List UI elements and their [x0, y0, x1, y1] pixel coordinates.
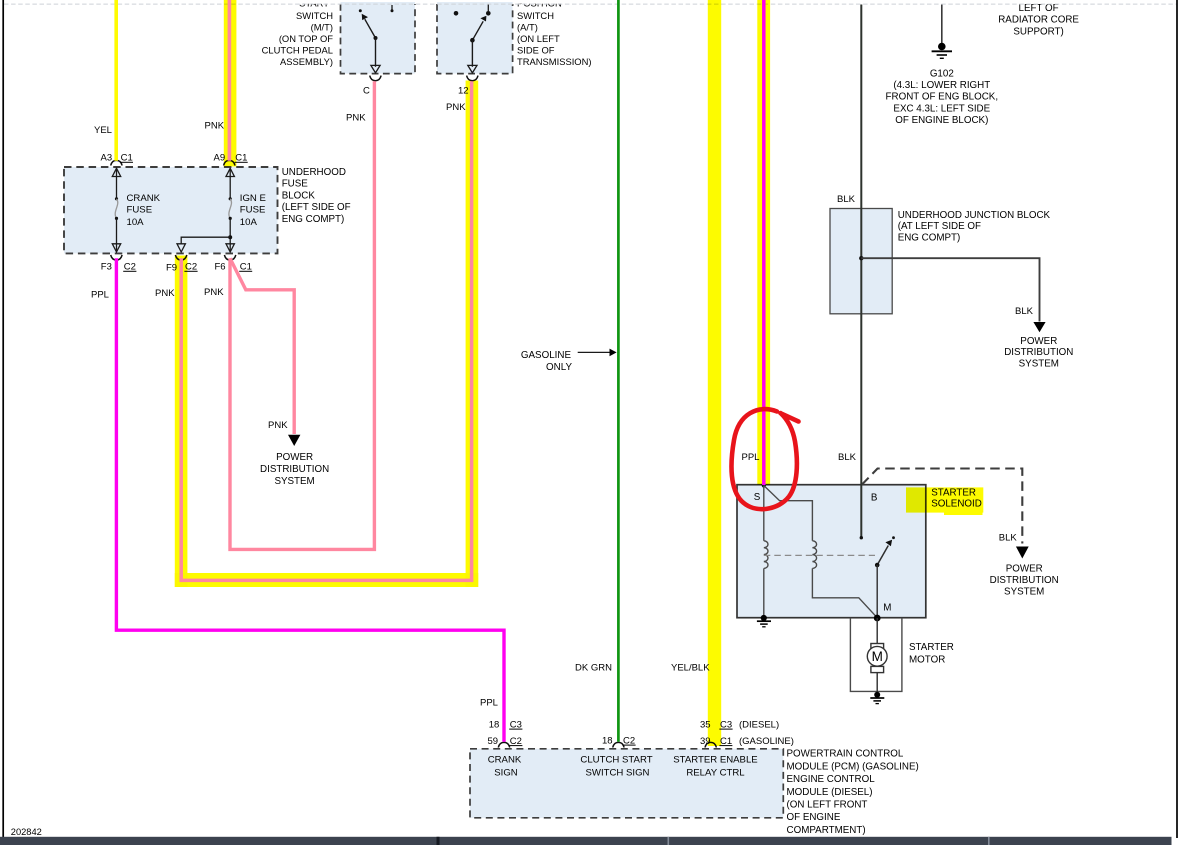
- pin F9 C2: [166, 262, 198, 274]
- frame: left border: [2, 0, 4, 837]
- label STARTER MOTOR: [909, 642, 954, 666]
- svg-text:F6: F6: [215, 262, 226, 273]
- ground solenoid: [757, 620, 771, 622]
- wire BLK junction block internal vertical: [860, 209, 862, 314]
- svg-text:M: M: [883, 603, 891, 614]
- pin A3 C1: [101, 153, 134, 164]
- svg-text:PPL: PPL: [480, 697, 498, 708]
- svg-text:OF ENGINE: OF ENGINE: [787, 812, 841, 823]
- starter assembly dashed enclosure: [862, 469, 1022, 544]
- label power distribution system (left): [260, 452, 329, 487]
- pin F3 C2: [101, 262, 137, 273]
- pin 59 C2: [488, 736, 523, 747]
- PCM box: [470, 749, 783, 818]
- solenoid switch arm: [877, 546, 888, 566]
- start switch M/T box: [341, 2, 416, 74]
- label STARTER SOLENOID: [931, 487, 982, 509]
- node junction block splice: [859, 256, 863, 260]
- svg-text:COMPARTMENT): COMPARTMENT): [787, 825, 866, 836]
- highlighter band over PNK wire at A9: [224, 0, 237, 167]
- svg-text:ENG COMPT): ENG COMPT): [898, 233, 961, 244]
- connector cup F6 C1: [224, 255, 235, 260]
- svg-text:ENG COMPT): ENG COMPT): [282, 214, 345, 225]
- svg-text:FUSE: FUSE: [282, 179, 309, 190]
- svg-text:EXC 4.3L: LEFT SIDE: EXC 4.3L: LEFT SIDE: [893, 103, 990, 114]
- wire pivot to M terminal: [876, 565, 878, 618]
- svg-text:(AT LEFT SIDE OF: (AT LEFT SIDE OF: [898, 221, 981, 232]
- wire M to motor: [876, 618, 878, 644]
- svg-text:18: 18: [489, 719, 500, 730]
- solenoid internals: [757, 483, 895, 626]
- PNK arrowhead to power distribution (left): [288, 435, 300, 446]
- svg-text:(4.3L: LOWER RIGHT: (4.3L: LOWER RIGHT: [893, 80, 990, 91]
- svg-text:PNK: PNK: [268, 420, 288, 431]
- wire BLK junction block to power distribution: [861, 258, 1039, 321]
- starter motor symbol: [867, 644, 887, 673]
- value CRANK FUSE 10A: [127, 193, 161, 228]
- svg-text:BLK: BLK: [837, 194, 856, 205]
- mechanical linkage dashed: [764, 554, 875, 556]
- label GASOLINE ONLY: [521, 350, 573, 373]
- svg-text:UNDERHOOD: UNDERHOOD: [282, 167, 346, 178]
- pin F6 C1: [215, 262, 253, 273]
- svg-text:POWER: POWER: [1020, 336, 1057, 347]
- connector hump PCM 59 C2: [498, 742, 509, 747]
- fuse block internal: F9 branch wire: [177, 235, 232, 252]
- svg-text:CRANK: CRANK: [488, 754, 522, 765]
- svg-text:TRANSMISSION): TRANSMISSION): [517, 56, 591, 67]
- connector cup under A/T switch: [467, 76, 478, 81]
- highlighter band up to switch terminal 12: [466, 81, 479, 588]
- wire YEL from ignition to A3: [114, 0, 118, 161]
- svg-text:RADIATOR CORE: RADIATOR CORE: [998, 15, 1079, 26]
- pin 39 C1 (GASOLINE): [700, 736, 794, 747]
- start switch M/T internals: [359, 5, 394, 73]
- svg-text:202842: 202842: [11, 827, 42, 837]
- pin 35 C3 (DIESEL): [700, 719, 779, 730]
- svg-text:OF ENGINE BLOCK): OF ENGINE BLOCK): [895, 115, 988, 126]
- svg-text:POWERTRAIN CONTROL: POWERTRAIN CONTROL: [787, 749, 904, 760]
- svg-text:C: C: [363, 86, 370, 97]
- svg-text:SYSTEM: SYSTEM: [274, 476, 314, 487]
- svg-text:PNK: PNK: [205, 120, 225, 131]
- taskbar: [0, 837, 1172, 845]
- svg-text:FRONT OF ENG BLOCK,: FRONT OF ENG BLOCK,: [886, 92, 999, 103]
- node switch pivot: [875, 563, 880, 568]
- wire hold-in coil to ground: [763, 568, 765, 617]
- svg-text:SIDE OF: SIDE OF: [517, 45, 555, 56]
- svg-text:CRANK: CRANK: [127, 193, 161, 204]
- wire S to pull-in winding: [764, 486, 813, 541]
- svg-text:FUSE: FUSE: [240, 205, 266, 216]
- connector cup under M/T switch: [370, 76, 381, 81]
- svg-text:(ON LEFT: (ON LEFT: [517, 33, 560, 44]
- label PCM input CRANK SIGN: [488, 754, 522, 778]
- position switch A/T internals: [454, 5, 491, 73]
- svg-text:SWITCH: SWITCH: [517, 10, 554, 21]
- svg-text:STARTER ENABLE: STARTER ENABLE: [673, 754, 757, 765]
- frame: top faint dashed line: [4, 3, 1177, 5]
- starter motor case: [850, 618, 902, 692]
- label PCM input CLUTCH START SWITCH SIGN: [580, 754, 652, 778]
- wire S to hold-in winding: [763, 486, 765, 541]
- connector hump A3 C1: [111, 160, 122, 165]
- wire motor to ground: [876, 673, 878, 693]
- svg-text:PNK: PNK: [446, 102, 466, 113]
- svg-text:DK GRN: DK GRN: [575, 662, 612, 673]
- wire PNK from F9 to position switch 12: [181, 81, 471, 580]
- svg-text:SIGN: SIGN: [494, 767, 518, 778]
- svg-text:RELAY CTRL: RELAY CTRL: [686, 767, 745, 778]
- svg-text:10A: 10A: [127, 217, 145, 228]
- svg-text:DISTRIBUTION: DISTRIBUTION: [990, 575, 1059, 586]
- label radiator core support: [998, 3, 1079, 37]
- BLK arrowhead to power distribution (top right): [1033, 322, 1045, 332]
- highlighter band over PPL wire at solenoid: [757, 0, 770, 485]
- svg-text:59: 59: [488, 736, 499, 747]
- svg-text:YEL: YEL: [94, 125, 112, 136]
- svg-text:ONLY: ONLY: [546, 362, 572, 373]
- value IGN E FUSE 10A: [240, 193, 266, 228]
- svg-text:PPL: PPL: [742, 452, 760, 463]
- label power distribution system (top right): [1004, 336, 1073, 370]
- wire DK GRN to PCM 18 C2: [617, 0, 620, 742]
- connector hump PCM 39 C1: [705, 742, 716, 747]
- svg-text:FUSE: FUSE: [127, 205, 153, 216]
- svg-text:PNK: PNK: [346, 113, 366, 124]
- svg-text:G102: G102: [930, 68, 954, 79]
- label PCM input STARTER ENABLE RELAY CTRL: [673, 754, 757, 778]
- svg-text:S: S: [754, 492, 761, 503]
- svg-text:SYSTEM: SYSTEM: [1004, 586, 1044, 597]
- label underhood fuse block: [282, 167, 351, 225]
- wire PPL to solenoid S: [762, 0, 766, 485]
- svg-text:MODULE (DIESEL): MODULE (DIESEL): [787, 787, 873, 798]
- label underhood junction block: [898, 210, 1051, 244]
- svg-text:PNK: PNK: [204, 287, 224, 298]
- starter solenoid box: [737, 485, 926, 618]
- svg-text:A3: A3: [101, 153, 113, 164]
- highlighter band horizontal run: [175, 573, 478, 587]
- node solenoid ground junction: [761, 615, 767, 621]
- svg-text:A9: A9: [214, 153, 226, 164]
- svg-text:M: M: [872, 649, 883, 664]
- underhood fuse block box: [64, 167, 278, 253]
- svg-text:(ON LEFT FRONT: (ON LEFT FRONT: [787, 800, 868, 811]
- highlighter over STARTER SOLENOID label: [906, 487, 983, 515]
- underhood junction block box: [830, 209, 892, 314]
- svg-text:PNK: PNK: [155, 288, 175, 299]
- label powertrain control module: [787, 749, 919, 836]
- svg-text:CLUTCH PEDAL: CLUTCH PEDAL: [262, 45, 333, 56]
- label position switch A/T (clipped POSITION sliver): [517, 0, 591, 67]
- pin A9 C1: [214, 153, 248, 164]
- svg-text:SYSTEM: SYSTEM: [1019, 358, 1059, 369]
- svg-text:B: B: [871, 493, 878, 504]
- svg-text:STARTER: STARTER: [909, 642, 954, 653]
- connector cup F3 C2: [111, 255, 122, 260]
- svg-text:ENGINE CONTROL: ENGINE CONTROL: [787, 774, 876, 785]
- svg-text:LEFT OF: LEFT OF: [1019, 3, 1059, 14]
- wire PNK from F6 to clutch start switch C: [230, 81, 374, 549]
- svg-text:POWER: POWER: [1006, 563, 1043, 574]
- svg-text:DISTRIBUTION: DISTRIBUTION: [260, 464, 329, 475]
- wire BLK junction block to solenoid B: [860, 314, 862, 538]
- hold-in coil winding: [764, 541, 768, 569]
- pin 18 C2: [602, 735, 636, 746]
- svg-text:18: 18: [602, 735, 613, 746]
- svg-text:POWER: POWER: [276, 452, 313, 463]
- node B contact: [860, 536, 863, 539]
- svg-text:IGN E: IGN E: [240, 193, 266, 204]
- node motor ground junction: [874, 692, 880, 698]
- svg-text:MOTOR: MOTOR: [909, 655, 945, 666]
- pin 18 C3: [489, 719, 523, 730]
- ground G102: [932, 43, 952, 59]
- svg-text:SWITCH: SWITCH: [296, 10, 333, 21]
- svg-text:DISTRIBUTION: DISTRIBUTION: [1004, 347, 1073, 358]
- node M terminal junction: [874, 615, 881, 622]
- ground starter motor: [870, 698, 884, 704]
- svg-text:YEL/BLK: YEL/BLK: [671, 662, 710, 673]
- svg-text:F3: F3: [101, 262, 112, 273]
- connector hump A9 C1: [224, 160, 235, 165]
- svg-text:(A/T): (A/T): [517, 21, 538, 32]
- GASOLINE ONLY arrow: [578, 349, 617, 357]
- svg-text:PPL: PPL: [91, 290, 109, 301]
- wire PNK branch F6 to power distribution: [230, 258, 294, 434]
- svg-text:(LEFT SIDE OF: (LEFT SIDE OF: [282, 202, 351, 213]
- svg-text:BLK: BLK: [1015, 306, 1034, 317]
- label start switch M/T (clipped START sliver): [262, 0, 334, 67]
- svg-text:(ON TOP OF: (ON TOP OF: [279, 33, 333, 44]
- svg-text:BLK: BLK: [999, 532, 1018, 543]
- svg-text:10A: 10A: [240, 217, 258, 228]
- highlighter band over PNK wire F9 vertical: [175, 256, 188, 588]
- svg-text:(DIESEL): (DIESEL): [739, 719, 779, 730]
- svg-text:SWITCH SIGN: SWITCH SIGN: [586, 767, 650, 778]
- BLK arrowhead to power distribution (bottom right): [1016, 547, 1029, 559]
- wire pull-in coil to M: [812, 568, 877, 617]
- wire PPL from F3 to PCM 59: [116, 258, 504, 742]
- svg-text:GASOLINE: GASOLINE: [521, 350, 572, 361]
- position switch A/T box: [437, 2, 513, 74]
- label G102: [886, 68, 999, 126]
- highlighter band over YEL/BLK wire: [708, 0, 721, 746]
- svg-text:(GASOLINE): (GASOLINE): [739, 736, 794, 747]
- connector hump PCM 18 C2: [613, 742, 624, 747]
- node S terminal entry: [762, 483, 766, 487]
- wire PNK from position switch to A9: [228, 0, 232, 161]
- wire BLK G102: [941, 5, 943, 44]
- svg-text:SUPPORT): SUPPORT): [1013, 26, 1063, 37]
- svg-text:MODULE (PCM) (GASOLINE): MODULE (PCM) (GASOLINE): [787, 761, 919, 772]
- svg-text:(M/T): (M/T): [311, 21, 333, 32]
- pull-in coil winding: [812, 541, 816, 569]
- svg-text:UNDERHOOD JUNCTION BLOCK: UNDERHOOD JUNCTION BLOCK: [898, 210, 1051, 221]
- node moving contact tip: [892, 536, 895, 539]
- label power distribution system (bottom right): [990, 563, 1059, 597]
- connector cup F9 C2: [175, 255, 186, 260]
- svg-text:ASSEMBLY): ASSEMBLY): [280, 56, 333, 67]
- wire BLK from top to junction block: [860, 5, 862, 210]
- frame: right border: [1176, 0, 1178, 838]
- fuse block internal: IGN E fuse: [226, 168, 234, 252]
- svg-text:BLK: BLK: [838, 452, 857, 463]
- svg-text:CLUTCH START: CLUTCH START: [580, 754, 652, 765]
- fuse block internal: CRANK fuse: [112, 168, 120, 252]
- annotation red circle around PPL: [731, 409, 798, 509]
- svg-text:BLOCK: BLOCK: [282, 190, 316, 201]
